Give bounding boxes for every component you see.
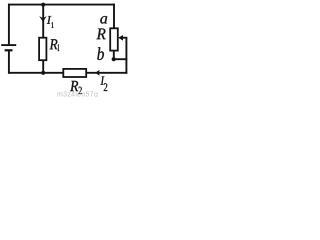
wire: wiper vertical down to bottom bus: [125, 38, 127, 74]
label I2 subscript 2: [104, 83, 108, 91]
node: junction dot on top bus: [41, 3, 45, 7]
label R2 letter R: [70, 81, 78, 91]
arrow: current I1 direction (down): [39, 16, 47, 22]
label I1 letter I: [47, 16, 52, 24]
wire: R1 branch bottom lead: [42, 60, 44, 73]
wire: left vertical (battery top lead): [8, 4, 10, 45]
wire: top horizontal bus: [8, 4, 115, 6]
resistor R1: [39, 38, 46, 61]
resistor R2 (horizontal, on bottom bus): [63, 69, 86, 77]
battery: short plate (negative terminal): [5, 49, 13, 51]
wire: R bottom lead down to node b: [113, 51, 115, 60]
wire: wiper horizontal shaft: [122, 37, 128, 39]
battery: long plate (positive terminal): [1, 44, 16, 46]
node: junction dot on bottom bus: [41, 71, 45, 75]
label b (bottom terminal): [97, 47, 104, 60]
wire: stub from node b to wiper wire: [114, 58, 128, 60]
potentiometer R (vertical rectangle): [110, 28, 118, 50]
wire: right vertical (potentiometer top lead): [113, 4, 115, 29]
label R1 letter R: [50, 39, 58, 49]
arrow: wiper arrowhead pointing left into R: [118, 35, 123, 41]
wire: left vertical (battery bottom lead): [8, 50, 10, 73]
label R2 subscript 2: [79, 87, 82, 94]
wire: bottom horizontal bus: [8, 72, 127, 74]
label a (top terminal): [100, 16, 107, 24]
node: junction dot at terminal b: [112, 57, 116, 61]
svg-text:m3z4len57g: m3z4len57g: [57, 92, 98, 98]
label R (potentiometer): [97, 29, 106, 40]
label I2 letter I: [101, 77, 105, 85]
label R1 subscript 1: [58, 44, 60, 51]
wire: R1 branch top lead: [42, 5, 44, 38]
arrow: current I2 direction (left) on bottom bus: [95, 70, 100, 76]
label I1 subscript 1: [51, 22, 53, 28]
